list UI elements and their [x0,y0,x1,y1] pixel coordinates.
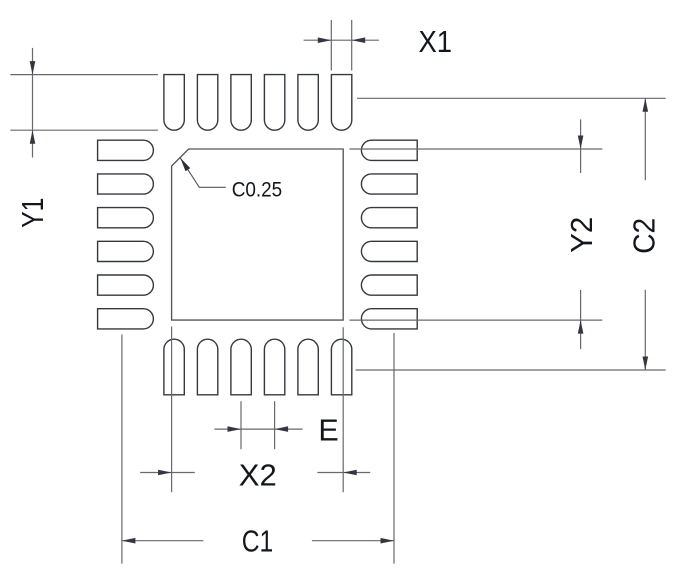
svg-text:X1: X1 [419,25,453,59]
svg-text:C1: C1 [242,524,274,558]
svg-text:C0.25: C0.25 [232,178,283,202]
svg-text:X2: X2 [239,459,277,493]
svg-text:E: E [318,414,338,448]
svg-text:C2: C2 [628,218,662,254]
svg-text:Y1: Y1 [16,198,50,228]
svg-text:Y2: Y2 [565,217,599,253]
